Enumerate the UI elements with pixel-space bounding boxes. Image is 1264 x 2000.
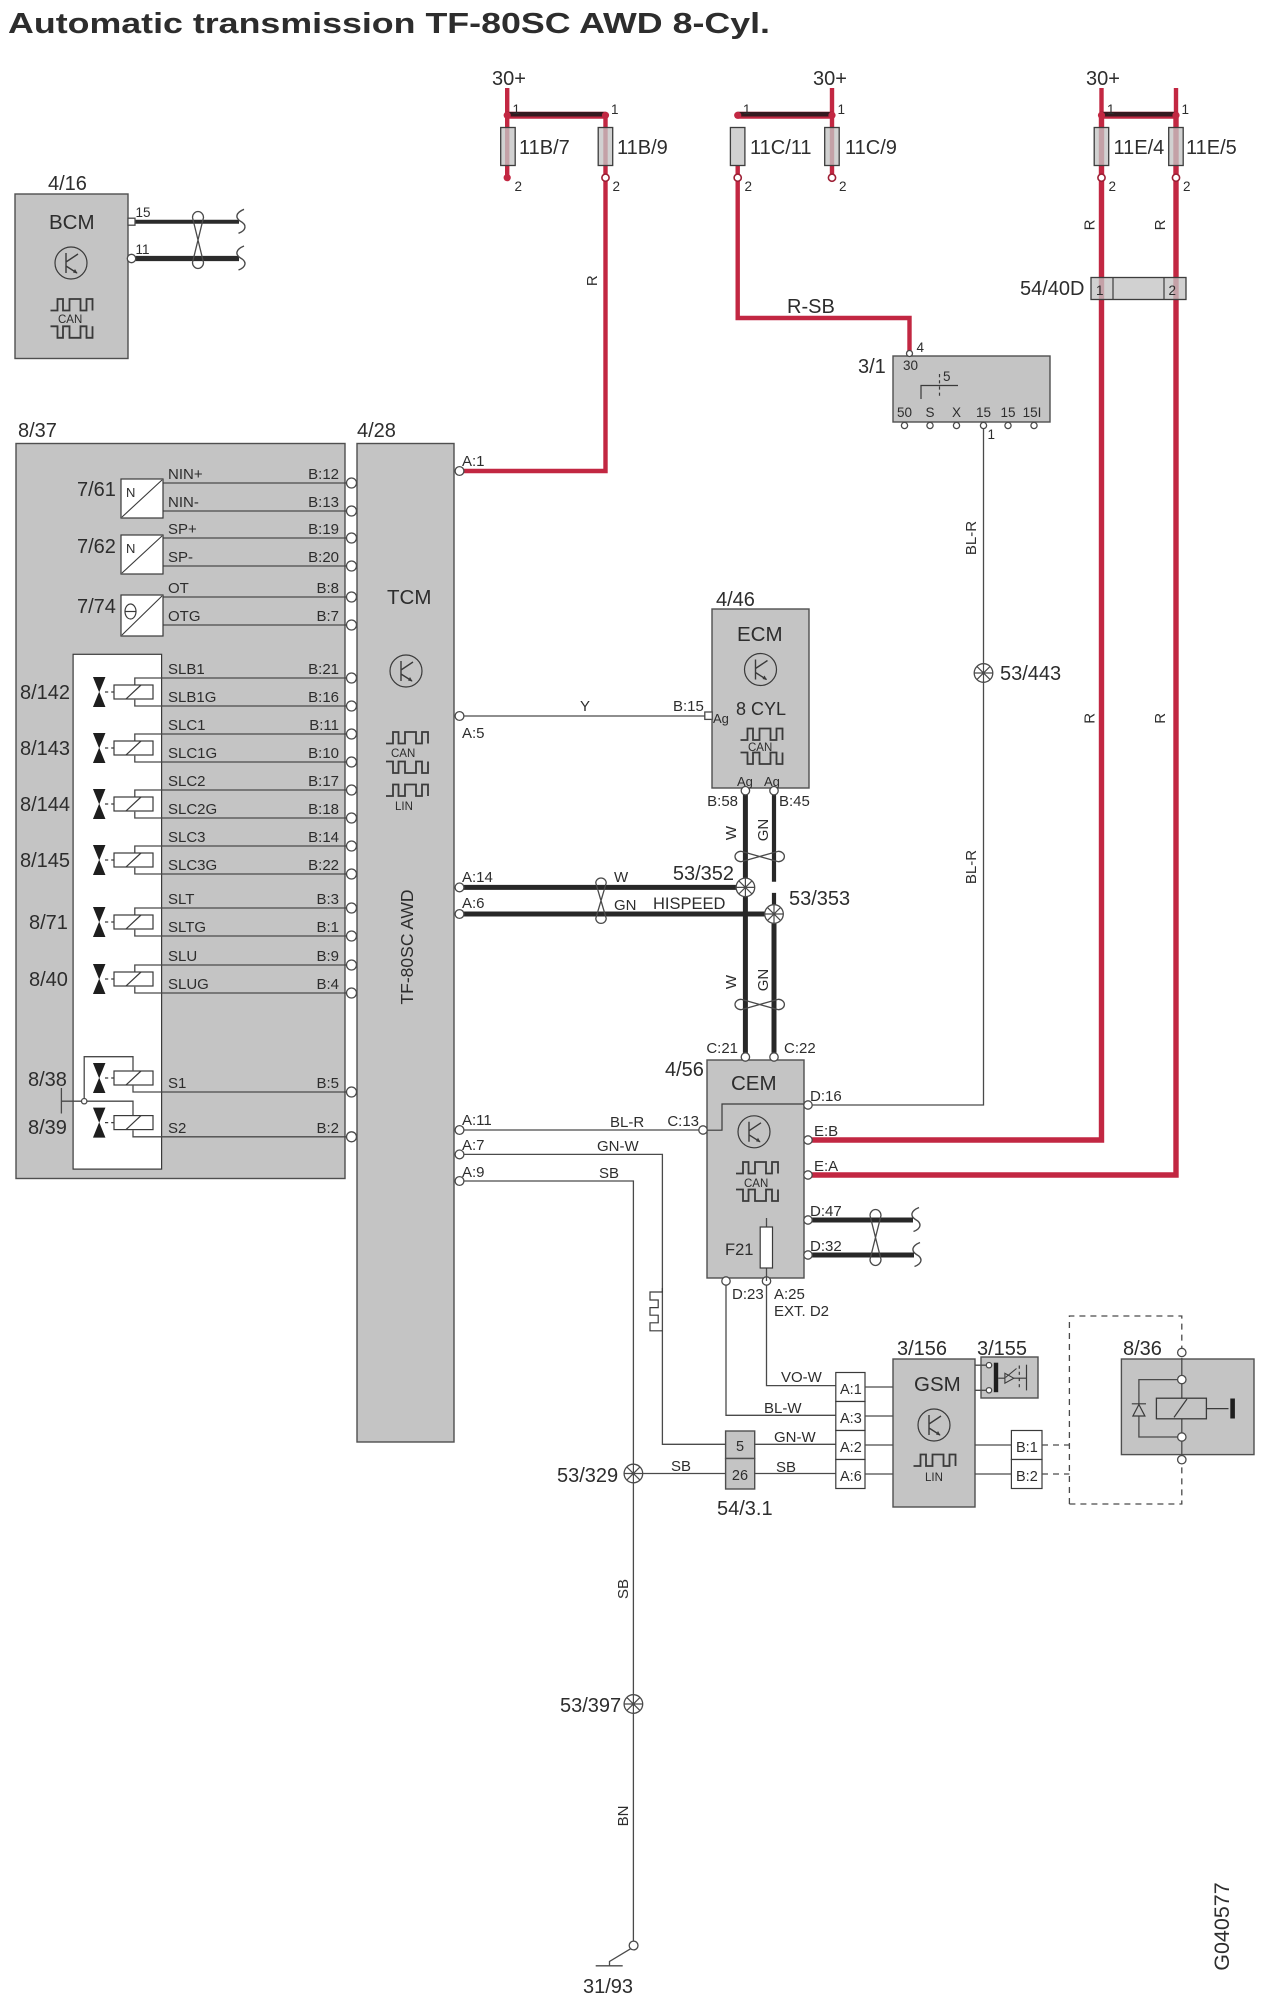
svg-text:1: 1 xyxy=(743,102,751,117)
svg-text:C:21: C:21 xyxy=(706,1040,738,1057)
svg-text:B:16: B:16 xyxy=(308,689,339,706)
TCM module 4/28 xyxy=(357,420,454,1442)
wire SLU xyxy=(135,965,347,973)
GSM connector pins A:1 A:3 A:2 A:6 xyxy=(836,1373,865,1489)
svg-text:SB: SB xyxy=(615,1579,632,1599)
ignition switch 3/1 xyxy=(858,356,1050,422)
dashed wire B:2 xyxy=(1042,1473,1069,1475)
BCM pins xyxy=(127,205,150,263)
junction 53/353 xyxy=(765,905,784,924)
svg-text:B:45: B:45 xyxy=(779,793,810,810)
svg-text:54/40D: 54/40D xyxy=(1020,278,1085,300)
wire SB junction to pin26 xyxy=(642,1473,726,1475)
svg-text:2: 2 xyxy=(1109,179,1117,194)
BCM module 4/16 xyxy=(15,173,128,359)
wire S1 xyxy=(133,1086,347,1092)
svg-text:SB: SB xyxy=(599,1165,619,1182)
svg-text:SLB1: SLB1 xyxy=(168,661,205,678)
wire CAN GN vertical ECM B:45 to CEM C:22 xyxy=(772,791,776,914)
svg-text:31/93: 31/93 xyxy=(583,1976,633,1998)
svg-text:TCM: TCM xyxy=(387,586,431,609)
svg-text:54/3.1: 54/3.1 xyxy=(717,1498,773,1520)
svg-text:TF-80SC AWD: TF-80SC AWD xyxy=(397,889,417,1004)
wire BN to ground xyxy=(632,1714,634,1942)
svg-text:R: R xyxy=(1152,219,1169,230)
svg-text:SLC2: SLC2 xyxy=(168,773,206,790)
wire SLC3 xyxy=(135,846,347,854)
svg-text:30+: 30+ xyxy=(813,68,847,90)
twisted pair symbol BCM xyxy=(193,212,204,269)
svg-text:R: R xyxy=(1082,713,1099,724)
wire CAN W vertical ECM B:58 to CEM C:21 xyxy=(743,791,748,1057)
node S1 S2 common xyxy=(82,1099,87,1104)
svg-text:1: 1 xyxy=(1107,102,1115,117)
svg-text:53/397: 53/397 xyxy=(560,1695,621,1717)
svg-text:2: 2 xyxy=(745,179,753,194)
wire fuse 11C/9 stub xyxy=(830,88,834,178)
svg-text:SLC3: SLC3 xyxy=(168,829,206,846)
svg-text:A:5: A:5 xyxy=(462,725,485,742)
svg-text:B:15: B:15 xyxy=(673,698,704,715)
CEM module 4/56 xyxy=(665,1059,804,1278)
dashed wire B:1 to relay xyxy=(1042,1444,1069,1446)
svg-text:8/143: 8/143 xyxy=(20,738,70,760)
svg-text:1: 1 xyxy=(1096,283,1104,298)
svg-text:R: R xyxy=(584,275,601,286)
svg-text:SLT: SLT xyxy=(168,891,194,908)
svg-text:R-SB: R-SB xyxy=(787,296,835,318)
svg-text:3/156: 3/156 xyxy=(897,1338,947,1360)
solenoid 8/142 xyxy=(94,678,153,707)
svg-text:GN: GN xyxy=(614,897,637,914)
svg-text:GN-W: GN-W xyxy=(774,1429,816,1446)
svg-text:SB: SB xyxy=(671,1458,691,1475)
TCM wire name labels xyxy=(168,466,339,1137)
svg-text:11C/9: 11C/9 xyxy=(845,137,897,159)
svg-text:D:32: D:32 xyxy=(810,1238,842,1255)
solenoid 8/38 xyxy=(94,1064,153,1093)
wire SLC3G xyxy=(135,868,347,874)
svg-text:8/71: 8/71 xyxy=(29,912,68,934)
fuse 11B/7 xyxy=(501,102,570,194)
svg-text:B:22: B:22 xyxy=(308,857,339,874)
wire SP+ xyxy=(163,537,347,539)
svg-text:LIN: LIN xyxy=(395,801,413,813)
svg-text:GN: GN xyxy=(755,969,772,992)
svg-text:SP+: SP+ xyxy=(168,521,197,538)
svg-text:C:13: C:13 xyxy=(667,1113,699,1130)
svg-text:N: N xyxy=(126,541,135,556)
wire CEM D:32 xyxy=(808,1253,914,1258)
svg-text:BCM: BCM xyxy=(49,211,95,234)
wire BL-W CEM D:23 to GSM A:3 xyxy=(726,1285,836,1415)
svg-text:B:2: B:2 xyxy=(316,1120,339,1137)
svg-text:B:19: B:19 xyxy=(308,521,339,538)
wire SB junction down xyxy=(632,1483,634,1695)
fuse 11B/9 xyxy=(598,102,668,194)
svg-text:B:8: B:8 xyxy=(316,580,339,597)
svg-text:BL-R: BL-R xyxy=(963,521,980,555)
junction 53/352 xyxy=(736,878,755,897)
svg-text:1: 1 xyxy=(513,102,521,117)
svg-text:B:4: B:4 xyxy=(316,976,339,993)
label pointer line 8/38 8/39 xyxy=(61,1088,81,1114)
svg-text:2: 2 xyxy=(839,179,847,194)
wire CAN GN TCM A:6 xyxy=(460,912,775,917)
svg-text:SLC3G: SLC3G xyxy=(168,857,217,874)
svg-text:7/74: 7/74 xyxy=(77,596,116,618)
twisted pair symbol A:14 A:6 xyxy=(596,878,606,923)
svg-text:8/144: 8/144 xyxy=(20,794,70,816)
busbar fuse group 1 xyxy=(507,112,605,119)
solenoid 8/143 xyxy=(94,734,153,763)
svg-text:3/1: 3/1 xyxy=(858,356,886,378)
svg-text:B:1: B:1 xyxy=(1016,1440,1038,1456)
fuse 11C/11 xyxy=(730,102,811,194)
solenoid 8/39 xyxy=(94,1108,153,1137)
svg-text:15: 15 xyxy=(136,205,151,220)
solenoid 8/40 xyxy=(94,965,153,994)
TCM left pins B row xyxy=(347,478,357,1142)
svg-text:5: 5 xyxy=(736,1439,744,1455)
sensor 7/62 xyxy=(77,535,163,574)
svg-text:BL-W: BL-W xyxy=(764,1400,802,1417)
svg-text:B:58: B:58 xyxy=(707,793,738,810)
svg-text:SLTG: SLTG xyxy=(168,919,206,936)
wire BL-R TCM A:11 to CEM C:13 xyxy=(460,1129,700,1131)
svg-text:B:7: B:7 xyxy=(316,608,339,625)
svg-text:4/46: 4/46 xyxy=(716,589,755,611)
wire Y TCM A:5 to ECM B:15 xyxy=(460,715,706,717)
solenoid 8/71 xyxy=(94,908,153,937)
svg-text:ECM: ECM xyxy=(737,623,783,646)
wire CEM D:47 xyxy=(808,1218,913,1223)
svg-text:8 CYL: 8 CYL xyxy=(736,699,786,719)
connector 54/3.1 pins 5 and 26 xyxy=(717,1431,773,1520)
svg-text:BL-R: BL-R xyxy=(610,1114,644,1131)
svg-text:53/329: 53/329 xyxy=(557,1465,618,1487)
svg-text:B:10: B:10 xyxy=(308,745,339,762)
svg-text:7/61: 7/61 xyxy=(77,479,116,501)
wire SB TCM A:9 to junction 53/329 xyxy=(460,1181,634,1464)
svg-text:8/38: 8/38 xyxy=(28,1069,67,1091)
svg-text:E:A: E:A xyxy=(814,1158,838,1175)
svg-text:15I: 15I xyxy=(1023,405,1042,420)
wire SLC1 xyxy=(135,734,347,742)
wire SLC2G xyxy=(135,812,347,818)
svg-text:W: W xyxy=(723,825,740,840)
wire red R 11B/9 to TCM A:1 xyxy=(460,115,606,471)
svg-text:SLU: SLU xyxy=(168,948,197,965)
wire 54/3.1 pin5 to A:2 xyxy=(755,1443,836,1445)
svg-text:26: 26 xyxy=(732,1468,748,1484)
svg-text:B:5: B:5 xyxy=(316,1075,339,1092)
svg-text:4/28: 4/28 xyxy=(357,420,396,442)
junction 53/397 xyxy=(624,1695,643,1714)
svg-text:53/352: 53/352 xyxy=(673,863,734,885)
svg-text:1: 1 xyxy=(988,427,996,442)
svg-text:11E/5: 11E/5 xyxy=(1186,137,1237,159)
svg-text:C:22: C:22 xyxy=(784,1040,816,1057)
junction 53/329 xyxy=(624,1464,643,1483)
svg-text:LIN: LIN xyxy=(925,1472,943,1484)
svg-text:B:18: B:18 xyxy=(308,801,339,818)
svg-text:NIN-: NIN- xyxy=(168,494,199,511)
svg-text:8/37: 8/37 xyxy=(18,420,57,442)
svg-text:A:11: A:11 xyxy=(462,1112,492,1129)
ignition pin 4 xyxy=(907,351,913,357)
wire SLT xyxy=(135,908,347,916)
twisted pair symbol W GN upper xyxy=(735,851,784,861)
wire BL-R ignition 15 to CEM D:16 xyxy=(808,429,984,1106)
svg-text:11B/7: 11B/7 xyxy=(519,137,570,159)
svg-text:G040577: G040577 xyxy=(1210,1882,1234,1970)
svg-text:30+: 30+ xyxy=(1086,68,1120,90)
svg-text:A:6: A:6 xyxy=(840,1469,862,1485)
svg-text:D:23: D:23 xyxy=(732,1286,764,1303)
CEM pins xyxy=(699,1053,812,1285)
sensor 7/74 xyxy=(77,595,163,636)
wire red R 11E/4 to CEM E:B xyxy=(808,115,1102,1140)
svg-text:B:14: B:14 xyxy=(308,829,339,846)
ignition bottom pins xyxy=(901,422,1037,442)
svg-text:W: W xyxy=(723,974,740,989)
TCM right pins A row xyxy=(455,467,464,1186)
svg-text:53/353: 53/353 xyxy=(789,888,850,910)
svg-text:SLC1G: SLC1G xyxy=(168,745,217,762)
break hook D:47 xyxy=(912,1208,920,1232)
busbar fuse group 2 xyxy=(738,112,832,119)
wire GSM connector stubs xyxy=(865,1387,893,1474)
svg-text:A:1: A:1 xyxy=(462,453,485,470)
svg-text:2: 2 xyxy=(515,179,523,194)
wire SLB1G xyxy=(135,700,347,706)
sensor cluster box 8/37 xyxy=(16,420,345,1179)
wire SLC2 xyxy=(135,790,347,798)
svg-text:CAN: CAN xyxy=(58,314,82,326)
wire SLUG xyxy=(135,987,347,993)
connector 54/40D xyxy=(1020,278,1186,301)
dashed loop around relay xyxy=(1069,1316,1181,1504)
svg-text:A:1: A:1 xyxy=(840,1382,862,1398)
svg-text:R: R xyxy=(1082,219,1099,230)
svg-text:W: W xyxy=(614,869,629,886)
svg-text:S: S xyxy=(925,405,934,420)
svg-text:CAN: CAN xyxy=(744,1178,768,1190)
ECM pins xyxy=(705,712,778,795)
svg-text:30: 30 xyxy=(903,358,918,373)
twisted pair symbol W GN lower xyxy=(735,999,784,1009)
svg-text:11C/11: 11C/11 xyxy=(750,137,812,159)
svg-text:8/40: 8/40 xyxy=(29,969,68,991)
relay 8/36 xyxy=(1121,1338,1254,1460)
svg-text:OT: OT xyxy=(168,580,189,597)
svg-text:4/56: 4/56 xyxy=(665,1059,704,1081)
svg-text:NIN+: NIN+ xyxy=(168,466,203,483)
wire OT xyxy=(163,596,347,598)
svg-text:30+: 30+ xyxy=(492,68,526,90)
wire BCM pin11 CAN xyxy=(136,256,240,261)
svg-text:A:3: A:3 xyxy=(840,1411,862,1427)
svg-text:4/16: 4/16 xyxy=(48,173,87,195)
GSM module 3/156 xyxy=(893,1338,975,1507)
svg-text:1: 1 xyxy=(1182,102,1190,117)
svg-text:GN: GN xyxy=(755,819,772,842)
svg-text:X: X xyxy=(952,405,961,420)
svg-text:F21: F21 xyxy=(725,1241,753,1259)
svg-text:8/142: 8/142 xyxy=(20,682,70,704)
wire ignition pin4 red R-SB xyxy=(738,166,910,353)
wire fuse 11E/5 30+ stub xyxy=(1174,88,1178,115)
twisted pair symbol D:47 D:32 xyxy=(870,1210,881,1266)
svg-text:Automatic transmission TF-80SC: Automatic transmission TF-80SC AWD 8-Cyl… xyxy=(8,8,770,40)
svg-text:11E/4: 11E/4 xyxy=(1114,137,1165,159)
svg-text:A:9: A:9 xyxy=(462,1164,485,1181)
fuse 11E/4 xyxy=(1094,102,1164,194)
svg-text:4: 4 xyxy=(917,340,925,355)
svg-text:2: 2 xyxy=(613,179,621,194)
svg-text:A:6: A:6 xyxy=(462,895,485,912)
fuse F21 in CEM xyxy=(725,1218,773,1281)
diode unit 3/155 xyxy=(977,1338,1038,1398)
svg-text:Y: Y xyxy=(580,698,590,715)
wire SP- xyxy=(163,565,347,567)
svg-text:SP-: SP- xyxy=(168,549,193,566)
wire GSM B:1 stub xyxy=(975,1444,1011,1446)
svg-text:N: N xyxy=(126,485,135,500)
svg-text:EXT. D2: EXT. D2 xyxy=(774,1303,829,1320)
svg-text:2: 2 xyxy=(1169,283,1177,298)
svg-text:B:21: B:21 xyxy=(308,661,339,678)
wire fuse 11B/7 stub xyxy=(505,88,509,178)
LIN marker on GN-W wire xyxy=(650,1288,662,1331)
wire SLC1G xyxy=(135,756,347,762)
wire VO-W CEM A:25 to GSM A:1 xyxy=(767,1285,836,1386)
svg-text:11: 11 xyxy=(136,242,150,257)
fuse 11C/9 xyxy=(825,102,897,194)
svg-text:2: 2 xyxy=(1183,179,1191,194)
wire SLB1 xyxy=(135,678,347,686)
svg-text:OTG: OTG xyxy=(168,608,201,625)
svg-text:3/155: 3/155 xyxy=(977,1338,1027,1360)
wire SB 54/3.1 pin26 to A:6 xyxy=(755,1473,836,1475)
relay outer pins xyxy=(1178,1348,1186,1356)
svg-text:A:14: A:14 xyxy=(462,869,493,886)
svg-text:SLUG: SLUG xyxy=(168,976,209,993)
svg-text:D:47: D:47 xyxy=(810,1203,842,1220)
svg-text:B:17: B:17 xyxy=(308,773,339,790)
svg-text:SLB1G: SLB1G xyxy=(168,689,216,706)
wire BCM pin15 CAN xyxy=(135,220,240,224)
wire NIN+ xyxy=(163,482,347,484)
break hook BCM wire 11 xyxy=(237,246,245,270)
wire S2 xyxy=(133,1130,347,1137)
svg-text:53/443: 53/443 xyxy=(1000,663,1061,685)
fuse 11E/5 xyxy=(1169,102,1237,194)
svg-text:E:B: E:B xyxy=(814,1123,838,1140)
svg-text:8/36: 8/36 xyxy=(1123,1338,1162,1360)
junction 53/443 xyxy=(974,664,993,683)
svg-text:SLC1: SLC1 xyxy=(168,717,206,734)
svg-text:B:9: B:9 xyxy=(316,948,339,965)
svg-text:B:11: B:11 xyxy=(309,717,339,734)
svg-text:BN: BN xyxy=(615,1806,632,1827)
svg-text:15: 15 xyxy=(976,405,991,420)
svg-text:B:12: B:12 xyxy=(308,466,339,483)
svg-text:SLC2G: SLC2G xyxy=(168,801,217,818)
svg-text:S2: S2 xyxy=(168,1120,186,1137)
svg-text:A:7: A:7 xyxy=(462,1137,485,1154)
ground 31/93 xyxy=(583,1941,638,1998)
ECM module 4/46 xyxy=(712,589,809,789)
sensor 7/61 xyxy=(77,479,163,518)
svg-text:Ag: Ag xyxy=(713,711,729,726)
svg-text:A:25: A:25 xyxy=(774,1286,805,1303)
svg-text:CEM: CEM xyxy=(731,1072,777,1095)
svg-text:HISPEED: HISPEED xyxy=(653,895,726,913)
svg-text:B:1: B:1 xyxy=(316,919,339,936)
svg-text:BL-R: BL-R xyxy=(963,850,980,884)
wire OTG xyxy=(163,624,347,626)
svg-text:8/145: 8/145 xyxy=(20,850,70,872)
wire GSM B:2 stub xyxy=(975,1473,1011,1475)
svg-text:15: 15 xyxy=(1000,405,1015,420)
svg-text:CAN: CAN xyxy=(391,748,415,760)
break hook D:32 xyxy=(913,1243,921,1267)
busbar fuse group 3 xyxy=(1102,112,1177,119)
svg-text:R: R xyxy=(1152,713,1169,724)
svg-text:8/39: 8/39 xyxy=(28,1117,67,1139)
bracket node to 8/39 coil xyxy=(87,1101,133,1115)
break hook BCM wire 15 xyxy=(237,209,245,233)
svg-text:SB: SB xyxy=(776,1459,796,1476)
solenoid 8/145 xyxy=(94,846,153,875)
wire CAN W TCM A:14 xyxy=(460,885,746,890)
wire red R 11E/5 to CEM E:A xyxy=(808,115,1176,1175)
TCM A pin labels xyxy=(462,453,493,1181)
svg-text:A:2: A:2 xyxy=(840,1440,862,1456)
wire fuse 11E/4 30+ stub xyxy=(1099,88,1103,115)
svg-text:S1: S1 xyxy=(168,1075,186,1092)
svg-text:B:3: B:3 xyxy=(316,891,339,908)
wire GN-W TCM A:7 to 54/3.1 pin5 xyxy=(460,1154,726,1444)
svg-text:1: 1 xyxy=(838,102,846,117)
svg-text:B:20: B:20 xyxy=(308,549,339,566)
wire GSM to 3/155 stubs xyxy=(975,1365,986,1390)
svg-text:B:2: B:2 xyxy=(1016,1469,1038,1485)
svg-text:D:16: D:16 xyxy=(810,1088,842,1105)
bracket 8/38 coil to node xyxy=(84,1057,133,1099)
connector B:1 B:2 xyxy=(1011,1431,1042,1489)
svg-text:1: 1 xyxy=(611,102,619,117)
svg-text:50: 50 xyxy=(897,405,912,420)
svg-text:VO-W: VO-W xyxy=(781,1369,823,1386)
svg-text:GSM: GSM xyxy=(914,1373,961,1396)
svg-text:GN-W: GN-W xyxy=(597,1138,639,1155)
svg-text:5: 5 xyxy=(943,369,951,384)
svg-text:7/62: 7/62 xyxy=(77,536,116,558)
wire NIN- xyxy=(163,510,347,512)
svg-text:11B/9: 11B/9 xyxy=(617,137,668,159)
wire SLTG xyxy=(135,930,347,936)
solenoid 8/144 xyxy=(94,790,153,819)
svg-text:B:13: B:13 xyxy=(308,494,339,511)
